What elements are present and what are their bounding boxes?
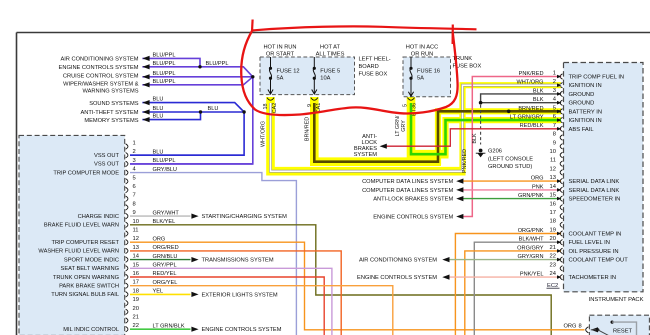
svg-text:TRIP COMP FUEL IN: TRIP COMP FUEL IN xyxy=(569,75,625,81)
wire ORG/YEL pin17 (PARK BRAKE SWITCH) xyxy=(130,286,393,335)
svg-text:BLU/PPL: BLU/PPL xyxy=(153,158,176,164)
wire YEL pin18 (TURN SIGNAL BULB FAIL) xyxy=(130,293,191,295)
svg-text:9: 9 xyxy=(307,104,313,107)
svg-text:ORG/PNK: ORG/PNK xyxy=(518,228,544,234)
svg-text:TURN SIGNAL BULB FAIL: TURN SIGNAL BULB FAIL xyxy=(51,292,119,298)
svg-text:12: 12 xyxy=(133,236,139,242)
svg-text:BLU: BLU xyxy=(153,97,164,103)
wire BLU to MEMORY SYSTEMS xyxy=(142,112,200,120)
svg-text:IGNITION IN: IGNITION IN xyxy=(569,83,602,89)
svg-text:PARK BRAKE SWITCH: PARK BRAKE SWITCH xyxy=(59,284,119,290)
svg-text:EXTERIOR LIGHTS SYSTEM: EXTERIOR LIGHTS SYSTEM xyxy=(202,292,278,298)
wire ORG/RED pin13 (WASHER FLUID LEVEL WARN) xyxy=(130,251,341,335)
svg-text:WASHER FLUID LEVEL WARN: WASHER FLUID LEVEL WARN xyxy=(38,249,119,255)
junction dots BLU xyxy=(199,110,202,113)
svg-text:(LEFT CONSOLE: (LEFT CONSOLE xyxy=(488,156,533,162)
svg-text:ORG: ORG xyxy=(153,236,166,242)
svg-text:BLU/PPL: BLU/PPL xyxy=(153,79,176,85)
svg-text:VSS OUT: VSS OUT xyxy=(94,153,119,159)
svg-text:BLU/PPL: BLU/PPL xyxy=(153,52,176,58)
svg-text:GRN/BLU: GRN/BLU xyxy=(153,254,178,260)
svg-text:LT GRN/BLK: LT GRN/BLK xyxy=(153,323,185,329)
svg-text:FUEL LEVEL IN: FUEL LEVEL IN xyxy=(569,240,610,246)
svg-text:17: 17 xyxy=(550,210,556,216)
svg-text:21: 21 xyxy=(133,315,139,321)
yellow highlight over WHT/ORG circuit xyxy=(271,97,466,171)
svg-text:HOT AT: HOT AT xyxy=(320,45,341,51)
svg-text:19: 19 xyxy=(550,228,556,234)
fuse F16 (FUSE 16 5A) xyxy=(410,57,412,67)
wire GRN/BLU pin14 (SPORT MODE INDIC) xyxy=(130,259,191,261)
wire BLU/PPL to ENGINE CONTROLS SYSTEM xyxy=(142,67,252,77)
wire ORG pack pin13 xyxy=(462,180,561,182)
wire ORG pin12 (TRIP COMPUTER RESET) to RESET switch xyxy=(130,242,585,330)
reset switch symbol xyxy=(591,327,598,332)
red marker top stroke xyxy=(252,26,477,30)
svg-text:SEAT BELT WARNING: SEAT BELT WARNING xyxy=(61,266,119,272)
svg-text:FUSE 5: FUSE 5 xyxy=(320,69,340,75)
svg-text:TRANSMISSIONS SYSTEM: TRANSMISSIONS SYSTEM xyxy=(202,258,274,264)
wire ORG/GRY pack pin21 xyxy=(465,251,561,335)
wire BLK/YEL pin10 (BRAKE FLUID LEVEL WARN) xyxy=(130,225,551,335)
svg-text:SERIAL DATA LINK: SERIAL DATA LINK xyxy=(569,188,620,194)
svg-text:ENGINE CONTROLS SYSTEM: ENGINE CONTROLS SYSTEM xyxy=(59,65,139,71)
svg-text:RED/BLK: RED/BLK xyxy=(520,123,544,129)
wire WHT/ORG fuse12 to pack pin2 xyxy=(271,85,562,171)
svg-text:SPEEDOMETER IN: SPEEDOMETER IN xyxy=(569,197,621,203)
svg-text:ENGINE CONTROLS SYSTEM: ENGINE CONTROLS SYSTEM xyxy=(202,327,282,333)
wire RED/YEL pin16 (TRUNK OPEN WARNING) xyxy=(130,277,324,335)
svg-text:BRN/RED: BRN/RED xyxy=(518,106,543,112)
wire RED/BLK pack pin7 to ANTI-LOCK BRAKES SYSTEM xyxy=(385,129,561,146)
svg-text:MEMORY SYSTEMS: MEMORY SYSTEMS xyxy=(84,118,138,124)
trip computer RESET switch box xyxy=(589,315,649,335)
fuse F5 (FUSE 5 10A) xyxy=(313,57,315,67)
svg-text:BLU: BLU xyxy=(208,106,219,112)
wire BLK/WHT pack pin20 xyxy=(474,242,561,335)
hand-drawn red marker loop around fuse boxes xyxy=(241,31,457,115)
svg-text:LT GRN/GRY: LT GRN/GRY xyxy=(510,115,544,121)
svg-text:9: 9 xyxy=(553,140,556,146)
svg-text:20: 20 xyxy=(550,236,556,242)
svg-text:BLK/WHT: BLK/WHT xyxy=(519,237,544,243)
svg-text:1: 1 xyxy=(553,71,556,77)
svg-text:LEFT HEEL-: LEFT HEEL- xyxy=(359,57,391,63)
reset pin 8 connector xyxy=(586,327,589,333)
svg-text:GROUND STUD): GROUND STUD) xyxy=(488,164,532,170)
wire BRN/RED fuse5 to pack pin5 xyxy=(314,103,561,162)
svg-text:MIL INDIC CONTROL: MIL INDIC CONTROL xyxy=(63,327,119,333)
svg-text:GRY/BLU: GRY/BLU xyxy=(153,167,177,173)
svg-text:BRAKE FLUID LEVEL WARN: BRAKE FLUID LEVEL WARN xyxy=(44,223,119,229)
svg-text:6: 6 xyxy=(133,184,136,190)
small arrowheads at pack connector ends xyxy=(557,75,562,79)
svg-text:7: 7 xyxy=(133,193,136,199)
svg-text:OIL PRESSURE IN: OIL PRESSURE IN xyxy=(569,249,619,255)
svg-text:TRUNK OPEN WARNING: TRUNK OPEN WARNING xyxy=(53,275,119,281)
svg-text:11: 11 xyxy=(133,228,139,234)
wire PNK/RED pack pin1 to ENGINE CONTROLS SYSTEM xyxy=(462,77,561,217)
svg-text:GRY/GRN: GRY/GRN xyxy=(517,254,543,260)
svg-text:13: 13 xyxy=(550,175,556,181)
svg-text:3: 3 xyxy=(133,158,136,164)
svg-text:11: 11 xyxy=(550,158,556,164)
svg-text:ORG/RED: ORG/RED xyxy=(153,245,179,251)
svg-text:15: 15 xyxy=(550,193,556,199)
svg-text:FUSE 16: FUSE 16 xyxy=(417,69,440,75)
svg-text:OR START: OR START xyxy=(266,51,295,57)
yellow highlight over LT GRN/GRY circuit xyxy=(411,97,449,154)
svg-text:GROUND: GROUND xyxy=(569,101,595,107)
ground G206 (left console ground stud) xyxy=(479,149,483,153)
svg-text:14: 14 xyxy=(550,184,557,190)
trunk fuse box xyxy=(403,57,451,97)
svg-text:BLU/PPL: BLU/PPL xyxy=(206,61,229,67)
svg-text:BOARD: BOARD xyxy=(359,64,379,70)
svg-text:22: 22 xyxy=(550,254,556,260)
svg-text:CA2: CA2 xyxy=(272,103,278,114)
wire LT GRN/GRY fuse16 to pack pin6 xyxy=(411,103,561,154)
svg-text:GRN/PNK: GRN/PNK xyxy=(518,193,544,199)
wire BLK pack pin4 (ground) xyxy=(481,102,561,104)
svg-text:18: 18 xyxy=(133,288,139,294)
svg-text:14: 14 xyxy=(133,254,140,260)
svg-text:15: 15 xyxy=(133,262,139,268)
svg-text:2: 2 xyxy=(133,149,136,155)
svg-text:21: 21 xyxy=(550,245,556,251)
wire LT GRN/BLK pin22 (MIL INDIC CONTROL) xyxy=(130,328,191,330)
svg-text:20: 20 xyxy=(133,306,139,312)
svg-text:BLU: BLU xyxy=(153,106,164,112)
svg-text:SYSTEM: SYSTEM xyxy=(354,152,378,158)
svg-text:9: 9 xyxy=(133,210,136,216)
svg-text:10: 10 xyxy=(550,149,556,155)
svg-text:COMPUTER DATA LINES SYSTEM: COMPUTER DATA LINES SYSTEM xyxy=(362,179,453,185)
svg-text:PNK: PNK xyxy=(532,184,544,190)
svg-text:BLK: BLK xyxy=(472,133,478,144)
svg-text:ANTI-LOCK BRAKES SYSTEM: ANTI-LOCK BRAKES SYSTEM xyxy=(373,197,453,203)
svg-text:RED/YEL: RED/YEL xyxy=(153,271,177,277)
wire BLU/PPL to WIPER/WASHER SYSTEM xyxy=(142,77,252,85)
svg-text:ENGINE CONTROLS SYSTEM: ENGINE CONTROLS SYSTEM xyxy=(357,275,437,281)
svg-text:BLU/PPL: BLU/PPL xyxy=(153,71,176,77)
left connector pins 1-22 (arcs and numbers) xyxy=(126,144,128,149)
svg-text:18: 18 xyxy=(550,219,556,225)
svg-text:3: 3 xyxy=(553,88,556,94)
svg-text:INSTRUMENT PACK: INSTRUMENT PACK xyxy=(589,297,644,303)
instrument pack pins 1-24 (arcs and numbers) xyxy=(560,74,562,79)
svg-text:STARTING/CHARGING SYSTEM: STARTING/CHARGING SYSTEM xyxy=(202,214,288,220)
svg-text:CHARGE INDIC: CHARGE INDIC xyxy=(78,214,119,220)
svg-text:TACHOMETER IN: TACHOMETER IN xyxy=(569,275,617,281)
svg-text:HOT IN ACC: HOT IN ACC xyxy=(406,45,438,51)
svg-text:COOLANT TEMP IN: COOLANT TEMP IN xyxy=(569,232,622,238)
svg-text:GRY/PPL: GRY/PPL xyxy=(153,263,177,269)
svg-text:10A: 10A xyxy=(320,76,330,82)
svg-text:SOUND SYSTEMS: SOUND SYSTEMS xyxy=(89,101,139,107)
wire PNK/YEL pack pin24 to ENGINE CONTROLS SYSTEM xyxy=(449,276,561,278)
wire GRY/GRN pack pin22 to AIR CONDITIONING SYSTEM xyxy=(449,259,561,261)
svg-text:FUSE 12: FUSE 12 xyxy=(277,69,300,75)
BLU trunk down to pin 2 xyxy=(130,112,244,155)
wire ORG/PNK pack pin19 xyxy=(455,234,561,335)
svg-text:COMPUTER DATA LINES SYSTEM: COMPUTER DATA LINES SYSTEM xyxy=(362,188,453,194)
svg-text:1: 1 xyxy=(133,141,136,147)
instrument pack box xyxy=(564,63,644,292)
svg-text:AIR CONDITIONING SYSTEM: AIR CONDITIONING SYSTEM xyxy=(359,258,437,264)
svg-text:BRN/RED: BRN/RED xyxy=(305,117,311,141)
svg-text:GRY/WHT: GRY/WHT xyxy=(153,210,180,216)
yellow highlight over BRN/RED circuit xyxy=(314,97,441,162)
svg-text:SPORT MODE INDIC: SPORT MODE INDIC xyxy=(64,257,119,263)
svg-text:AIR CONDITIONING SYSTEM: AIR CONDITIONING SYSTEM xyxy=(60,57,138,63)
svg-text:BLU: BLU xyxy=(153,149,164,155)
svg-text:TRIP COMPUTER MODE: TRIP COMPUTER MODE xyxy=(53,170,119,176)
svg-text:ORG: ORG xyxy=(531,176,544,182)
fuse F12 (FUSE 12 5A) xyxy=(270,57,272,67)
svg-text:G206: G206 xyxy=(488,149,502,155)
svg-text:PNK/RED: PNK/RED xyxy=(519,71,544,77)
svg-text:7: 7 xyxy=(553,123,556,129)
svg-text:5A: 5A xyxy=(277,76,284,82)
svg-text:ORG/YEL: ORG/YEL xyxy=(153,280,178,286)
svg-text:PNK/RED: PNK/RED xyxy=(462,149,468,173)
svg-text:WIPER/WASHER SYSTEM &: WIPER/WASHER SYSTEM & xyxy=(63,82,139,88)
wire GRY/PPL pin15 (SEAT BELT WARNING) xyxy=(130,268,332,335)
svg-text:24: 24 xyxy=(550,271,557,277)
svg-text:17: 17 xyxy=(133,280,139,286)
svg-text:22: 22 xyxy=(133,323,139,329)
svg-text:16: 16 xyxy=(133,271,139,277)
svg-text:COOLANT TEMP OUT: COOLANT TEMP OUT xyxy=(569,258,629,264)
wire BLU to ANTI-THEFT SYSTEM xyxy=(142,111,244,113)
left instrument-cluster connector box xyxy=(19,135,125,335)
wire PNK pack pin14 xyxy=(462,189,561,191)
svg-text:FUSE BOX: FUSE BOX xyxy=(359,72,388,78)
wire BLU/PPL to CRUISE CONTROL SYSTEM xyxy=(142,76,252,78)
wire BLU to SOUND SYSTEMS xyxy=(142,103,244,112)
svg-text:ENGINE CONTROLS SYSTEM: ENGINE CONTROLS SYSTEM xyxy=(373,215,453,221)
page frame border xyxy=(17,32,650,34)
svg-text:VSS OUT: VSS OUT xyxy=(94,162,119,168)
svg-text:RESET: RESET xyxy=(613,328,632,334)
wire BLU pin2 (VSS OUT) xyxy=(130,154,244,156)
svg-text:10: 10 xyxy=(133,219,139,225)
wire GRY/BLU pin4 (TRIP COMPUTER MODE) xyxy=(130,173,296,335)
svg-text:BLU/PPL: BLU/PPL xyxy=(153,61,176,67)
svg-text:BATTERY IN: BATTERY IN xyxy=(569,109,603,115)
svg-text:5: 5 xyxy=(133,175,136,181)
BLU/PPL trunk down to pin 3 xyxy=(130,77,253,164)
svg-text:OR RUN: OR RUN xyxy=(411,51,433,57)
svg-text:PNK/YEL: PNK/YEL xyxy=(520,272,544,278)
svg-text:CRUISE CONTROL SYSTEM: CRUISE CONTROL SYSTEM xyxy=(63,73,139,79)
svg-text:WARNING SYSTEMS: WARNING SYSTEMS xyxy=(82,88,138,94)
svg-text:BLK: BLK xyxy=(533,97,544,103)
svg-text:8: 8 xyxy=(553,132,556,138)
svg-text:ORG: ORG xyxy=(564,324,577,330)
wire GRY/WHT pin9 (CHARGE INDIC) xyxy=(130,215,191,217)
wire BLU/PPL pin3 (VSS OUT) xyxy=(130,163,253,165)
svg-text:19: 19 xyxy=(133,297,139,303)
BLK lead to ground stud (dashed) xyxy=(480,105,482,145)
svg-text:13: 13 xyxy=(133,245,139,251)
left heel-board fuse box xyxy=(260,57,355,95)
svg-text:BLK: BLK xyxy=(533,88,544,94)
svg-text:TRIP COMPUTER RESET: TRIP COMPUTER RESET xyxy=(51,240,119,246)
splice dot on BRN/RED xyxy=(507,110,511,114)
svg-text:SERIAL DATA LINK: SERIAL DATA LINK xyxy=(569,179,620,185)
junction dots BLU/PPL xyxy=(198,65,201,68)
svg-text:16: 16 xyxy=(550,201,556,207)
svg-text:GROUND: GROUND xyxy=(569,92,595,98)
svg-text:ALL TIMES: ALL TIMES xyxy=(316,51,345,57)
wire BLK pack pin3 (ground) xyxy=(481,94,561,103)
red marker right tick xyxy=(452,25,454,45)
svg-text:HOT IN RUN: HOT IN RUN xyxy=(263,45,296,51)
svg-text:ORG/GRY: ORG/GRY xyxy=(517,245,544,251)
svg-text:18: 18 xyxy=(263,104,269,110)
svg-text:5A: 5A xyxy=(417,76,424,82)
svg-text:23: 23 xyxy=(550,262,556,268)
svg-text:8: 8 xyxy=(579,324,582,330)
svg-text:YEL: YEL xyxy=(153,289,164,295)
red marker left tick xyxy=(251,20,254,32)
svg-text:BLK/YEL: BLK/YEL xyxy=(153,219,176,225)
svg-text:ANTI-THEFT SYSTEM: ANTI-THEFT SYSTEM xyxy=(80,110,138,116)
svg-text:BLU: BLU xyxy=(153,114,164,120)
svg-text:12: 12 xyxy=(550,166,556,172)
svg-text:5: 5 xyxy=(402,104,408,107)
svg-text:8: 8 xyxy=(133,201,136,207)
svg-text:ABS FAIL: ABS FAIL xyxy=(569,127,595,133)
wire GRN/PNK pack pin15 xyxy=(462,198,561,200)
svg-text:WHT/ORG: WHT/ORG xyxy=(516,80,543,86)
wire BLU/PPL to AIR CONDITIONING SYSTEM xyxy=(142,58,200,66)
svg-text:WHT/ORG: WHT/ORG xyxy=(261,121,267,147)
svg-text:GRY: GRY xyxy=(401,120,407,132)
svg-text:IGNITION IN: IGNITION IN xyxy=(569,118,602,124)
